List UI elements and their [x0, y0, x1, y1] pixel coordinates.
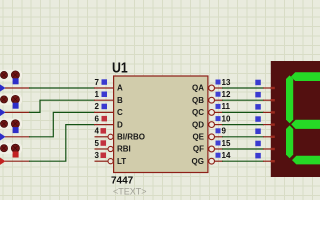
wire SW4 to U1 pin 6 (D) — [5, 125, 95, 162]
wire SW2 to U1 pin 1 (B) — [5, 100, 95, 112]
svg-text:13: 13 — [222, 78, 231, 87]
svg-text:10: 10 — [222, 114, 231, 123]
U1 right pin 15 (QF): bubble, stub, number, state square, label, wire to display — [193, 139, 272, 154]
svg-text:QA: QA — [192, 84, 204, 93]
U1 right pin 11 (QC): bubble, stub, number, state square, label, wire to display — [192, 102, 272, 117]
svg-text:QG: QG — [192, 157, 204, 166]
svg-text:12: 12 — [222, 90, 231, 99]
wire SW1 to U1 pin 7 (A) — [5, 87, 95, 89]
svg-text:11: 11 — [222, 102, 231, 111]
U1 left pin 6 (D): stub, number, state square, label — [94, 114, 123, 129]
svg-text:C: C — [117, 108, 123, 117]
svg-text:9: 9 — [222, 127, 227, 136]
svg-text:BI/RBO: BI/RBO — [117, 133, 145, 142]
svg-text:QD: QD — [192, 120, 204, 129]
display segment A (top) — [291, 72, 320, 81]
U1 right pin 12 (QB): bubble, stub, number, state square, label, wire to display — [192, 90, 272, 105]
svg-text:7447: 7447 — [111, 176, 134, 187]
U1 left pin 5 (RBI): stub, number, state square, label — [95, 139, 131, 154]
svg-text:14: 14 — [222, 151, 231, 160]
logic toggle switch SW4 (drives D input) — [0, 143, 22, 166]
svg-text:B: B — [117, 96, 123, 105]
U1 left pin 3 (LT): stub, number, state square, label — [95, 151, 127, 166]
svg-text:6: 6 — [95, 114, 100, 123]
svg-text:QF: QF — [193, 145, 204, 154]
svg-text:U1: U1 — [112, 59, 128, 75]
svg-text:QC: QC — [192, 108, 204, 117]
logic toggle switch SW1 (drives A input) — [0, 70, 22, 93]
display segment F (top-left) — [286, 75, 293, 123]
display segment E (bottom-left) — [286, 125, 293, 158]
U1 right pin 9 (QE): bubble, stub, number, state square, label, wire to display — [192, 127, 272, 142]
svg-text:7: 7 — [95, 78, 100, 87]
U1 right pin 13 (QA): bubble, stub, number, state square, label, wire to display — [192, 78, 272, 93]
wire SW3 to U1 pin 2 (C) — [5, 112, 95, 136]
U1 left pin 4 (BI/RBO): stub, number, state square, label — [95, 127, 146, 142]
U1 left pin 7 (A): stub, number, state square, label — [94, 78, 123, 93]
svg-text:LT: LT — [117, 157, 126, 166]
svg-text:2: 2 — [95, 102, 100, 111]
display segment D (bottom) — [292, 156, 320, 165]
logic toggle switch SW2 (drives B input) — [0, 94, 22, 117]
svg-text:QE: QE — [192, 133, 204, 142]
7-segment display body — [271, 61, 320, 177]
logic toggle switch SW3 (drives C input) — [0, 119, 22, 142]
U1 right pin 14 (QG): bubble, stub, number, state square, label, wire to display — [192, 151, 272, 166]
U1 right pin 10 (QD): bubble, stub, number, state square, label, wire to display — [192, 114, 272, 129]
svg-text:1: 1 — [95, 90, 100, 99]
display pin marks on body edge — [271, 87, 275, 163]
svg-text:RBI: RBI — [117, 145, 131, 154]
svg-text:15: 15 — [222, 139, 231, 148]
U1 left pin 1 (B): stub, number, state square, label — [94, 90, 123, 105]
IC U1 7447 body — [114, 76, 208, 173]
svg-text:D: D — [117, 120, 123, 129]
svg-text:3: 3 — [95, 151, 100, 160]
svg-text:4: 4 — [95, 127, 100, 136]
svg-text:5: 5 — [95, 139, 100, 148]
display segment G (middle) — [291, 120, 320, 129]
U1 left pin 2 (C): stub, number, state square, label — [94, 102, 123, 117]
svg-text:<TEXT>: <TEXT> — [113, 187, 147, 197]
svg-text:QB: QB — [192, 96, 204, 105]
svg-text:A: A — [117, 84, 123, 93]
